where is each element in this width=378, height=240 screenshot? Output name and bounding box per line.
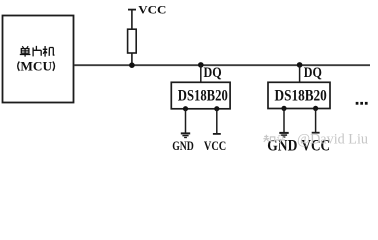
wire: sensor2 GND pin lead: [283, 108, 285, 132]
wire: sensor1 GND pin lead: [185, 109, 187, 133]
wire: sensor1 VCC pin lead: [216, 109, 218, 134]
svg-text:DQ: DQ: [204, 64, 222, 80]
wire: sensor2 VCC pin lead: [315, 108, 317, 132]
svg-text:DS18B20: DS18B20: [178, 87, 228, 105]
ground symbol (sensor1): [181, 133, 190, 137]
pin label DQ (sensor1): [204, 64, 222, 80]
MCU box U0: [3, 16, 74, 103]
wire: bus drop to sensor1 DQ pin: [200, 65, 202, 82]
ground symbol (sensor2): [279, 133, 288, 137]
node: sensor1 VCC pin junction: [214, 106, 219, 111]
svg-text:DS18B20: DS18B20: [275, 87, 327, 104]
VCC terminal bar (sensor2): [312, 132, 320, 134]
value label DS18B20 (U1): [178, 87, 228, 105]
node: sensor2 tap junction: [297, 62, 303, 68]
label GND (sensor2): [267, 138, 297, 155]
label VCC (sensor2): [301, 137, 330, 154]
label 单片机 (hand-drawn glyphs): [20, 46, 55, 57]
node: resistor/bus junction: [129, 62, 135, 68]
node: sensor1 tap junction: [198, 62, 204, 68]
片: [33, 46, 41, 57]
wire: DQ bus from MCU to right edge: [74, 64, 370, 66]
svg-text:DQ: DQ: [304, 64, 322, 80]
单: [22, 46, 28, 48]
乎: [276, 135, 285, 143]
pin label DQ (sensor2): [304, 64, 322, 80]
svg-text:VCC: VCC: [138, 3, 166, 16]
node: sensor2 VCC pin junction: [313, 106, 318, 111]
wire: bus drop to sensor2 DQ pin: [299, 65, 301, 82]
知: [263, 135, 269, 142]
svg-text:GND: GND: [172, 140, 194, 154]
wire: resistor bottom to bus: [131, 53, 133, 65]
label GND (sensor1): [172, 140, 194, 154]
VCC terminal bar (top): [128, 9, 136, 11]
value label DS18B20 (U2): [275, 87, 327, 104]
sensor U2 DS18B20 box: [268, 82, 330, 108]
watermark @David Liu: [297, 132, 368, 148]
node: sensor1 GND pin junction: [183, 106, 188, 111]
VCC terminal bar (sensor1): [213, 133, 221, 135]
label VCC (sensor1): [204, 139, 226, 153]
机: [43, 46, 55, 57]
ellipsis: more sensors: [356, 102, 368, 105]
label （MCU）: [18, 60, 55, 73]
svg-text:VCC: VCC: [204, 139, 226, 153]
sensor U1 DS18B20 box: [171, 82, 230, 109]
svg-text:@David Liu: @David Liu: [297, 132, 368, 148]
svg-text:MCU: MCU: [20, 60, 52, 73]
node: sensor2 GND pin junction: [281, 106, 286, 111]
label VCC (top): [138, 3, 166, 16]
watermark 知乎 (hand-drawn glyphs): [263, 135, 285, 143]
wire: VCC bar to resistor top: [131, 10, 133, 30]
resistor R1 pull-up body: [128, 29, 137, 53]
